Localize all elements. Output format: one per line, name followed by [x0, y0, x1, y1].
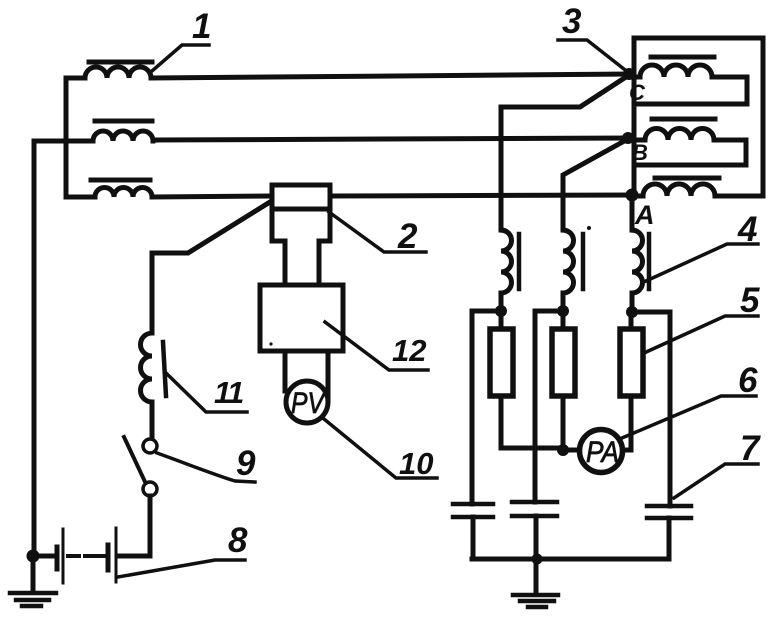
wire bottom rail — [472, 557, 669, 562]
connector 2 shoulders — [272, 209, 330, 285]
wire left riser joining three phases — [64, 78, 69, 197]
wire 4a node to resistor R1 — [499, 311, 504, 327]
svg-text:12: 12 — [392, 333, 426, 368]
wire from node C down to transformer 4a — [501, 75, 629, 230]
svg-text:1: 1 — [192, 7, 211, 46]
wire C3 to rail — [667, 518, 672, 559]
node B junction dot — [622, 132, 634, 144]
transformer 4a winding — [501, 230, 512, 311]
summing node junction dot — [557, 444, 569, 456]
svg-text:11: 11 — [214, 375, 243, 410]
core of winding A — [655, 176, 719, 181]
wire C1 to rail — [471, 517, 476, 559]
core of winding B — [652, 117, 715, 122]
inductor L1a (line reactor, phase 1) — [85, 67, 151, 78]
node under 4c junction dot — [626, 306, 638, 318]
capacitor C1 top plate — [453, 502, 493, 507]
wire 4b node to resistor R2 — [561, 311, 566, 327]
rail junction dot — [532, 554, 543, 565]
wire R3 bottom to ammeter PA — [621, 398, 631, 450]
wire bus L3 left stub — [66, 195, 95, 200]
node under 4b junction dot — [557, 305, 569, 317]
winding C of machine 3 — [634, 65, 747, 104]
capacitor C3 bottom plate — [647, 516, 691, 521]
svg-text:8: 8 — [228, 521, 248, 560]
battery 8 cell 2 long plate — [115, 528, 118, 582]
leader and label 3 — [558, 40, 629, 73]
svg-text:PA: PA — [586, 436, 619, 469]
wire connector 2 to relay coil 11 — [152, 202, 270, 333]
wire summing node to ammeter PA — [563, 448, 579, 453]
leader and label 4 — [646, 244, 758, 281]
core of reactor phase 1 — [89, 60, 152, 65]
leader and label 10 — [324, 419, 437, 478]
ammeter PA body — [580, 430, 623, 473]
ground symbol bottom center — [513, 595, 558, 607]
scan speck — [269, 342, 272, 345]
wire from node A down to transformer 4c — [630, 195, 635, 230]
ground symbol bottom left — [10, 593, 56, 606]
svg-text:5: 5 — [740, 281, 760, 320]
wire switch to battery — [118, 496, 150, 556]
leader and label 8 — [118, 560, 245, 577]
svg-text:6: 6 — [738, 361, 758, 400]
wire bus L1 left stub — [66, 76, 85, 81]
node C junction dot — [623, 68, 635, 80]
inductor L1c (line reactor, phase 3) — [95, 188, 152, 197]
leader and label 6 — [622, 396, 756, 438]
battery 8 cell 1 long plate — [62, 529, 65, 583]
battery 8 cell 2 short plate — [106, 545, 111, 570]
leader and label 5 — [644, 316, 758, 353]
switch 9 top contact — [143, 439, 157, 453]
transformer 4b winding — [563, 230, 574, 311]
capacitor C1 bottom plate — [453, 515, 493, 520]
dashed link between cells — [68, 554, 106, 558]
wire 4c node to resistor R3 — [629, 312, 634, 327]
switch 9 blade — [124, 437, 147, 486]
wire box 12 to voltmeter right — [326, 351, 331, 398]
transformer 4c core — [647, 234, 652, 289]
wire C2 to rail and ground — [534, 516, 539, 594]
wire node to battery — [34, 554, 54, 559]
svg-text:PV: PV — [291, 387, 326, 420]
core of reactor phase 2 — [95, 119, 152, 124]
battery 8 cell 1 short plate — [55, 547, 60, 569]
generator block 3 outline — [634, 38, 763, 196]
node under 4a junction dot — [495, 305, 507, 317]
wire bus L3 from connector 2 to node A — [329, 195, 632, 196]
svg-text:C: C — [629, 80, 646, 105]
svg-text:2: 2 — [397, 217, 418, 256]
wire R1 bottom to summing node — [501, 398, 563, 448]
leader and label 1 — [152, 45, 209, 71]
wire bypass from 4a node to capacitor C1 — [472, 311, 501, 504]
svg-text:A: A — [634, 200, 655, 230]
switch 9 bottom contact — [143, 482, 157, 496]
control box 12 — [260, 285, 343, 351]
node A junction dot — [626, 189, 639, 202]
svg-text:10: 10 — [399, 446, 433, 481]
resistor R3 — [620, 329, 643, 396]
resistor R2 — [552, 329, 575, 396]
wire bypass from 4c node to capacitor C3 — [632, 312, 670, 506]
winding B of machine 3 — [634, 129, 746, 166]
wire bus L1 to node C — [151, 74, 630, 78]
winding A of machine 3 — [634, 184, 763, 196]
battery junction dot — [27, 550, 40, 563]
leader and label 7 — [674, 464, 758, 498]
svg-text:9: 9 — [236, 444, 256, 483]
wire from node B down to transformer 4b — [563, 139, 628, 230]
wire left drop to battery — [32, 141, 37, 556]
svg-text:3: 3 — [562, 2, 582, 41]
transformer 4a core — [517, 234, 522, 289]
wire box 12 to voltmeter left — [283, 351, 288, 391]
core of winding C — [651, 55, 714, 60]
wire bus L2 left stub — [34, 139, 93, 144]
relay coil 11 core — [163, 342, 166, 396]
leader and label 2 — [329, 212, 426, 252]
wire bus L3 to connector 2 — [152, 196, 271, 197]
wire bypass from 4b node to capacitor C2 — [535, 311, 563, 502]
capacitor C3 top plate — [647, 504, 691, 509]
leader and label 12 — [325, 322, 428, 370]
wire to left ground — [31, 556, 36, 592]
svg-text:B: B — [632, 140, 648, 165]
resistor R1 — [490, 329, 513, 396]
voltmeter PV body — [286, 381, 328, 423]
capacitor C2 top plate — [512, 500, 557, 505]
svg-text:4: 4 — [737, 210, 757, 249]
inductor L1b (line reactor, phase 2) — [93, 131, 153, 141]
svg-text:7: 7 — [740, 429, 761, 468]
capacitor C2 bottom plate — [512, 514, 557, 519]
transformer 4b core — [581, 234, 586, 289]
leader and label 11 — [166, 373, 247, 412]
core of reactor phase 3 — [91, 178, 150, 183]
leader and label 9 — [157, 453, 255, 482]
transformer 4c winding — [632, 230, 643, 312]
connector 2 head — [272, 185, 330, 209]
wire R2 bottom to summing node — [561, 398, 566, 450]
wire bus L2 to node B — [153, 138, 630, 140]
scan speck — [587, 226, 591, 230]
relay coil 11 winding — [141, 333, 153, 439]
